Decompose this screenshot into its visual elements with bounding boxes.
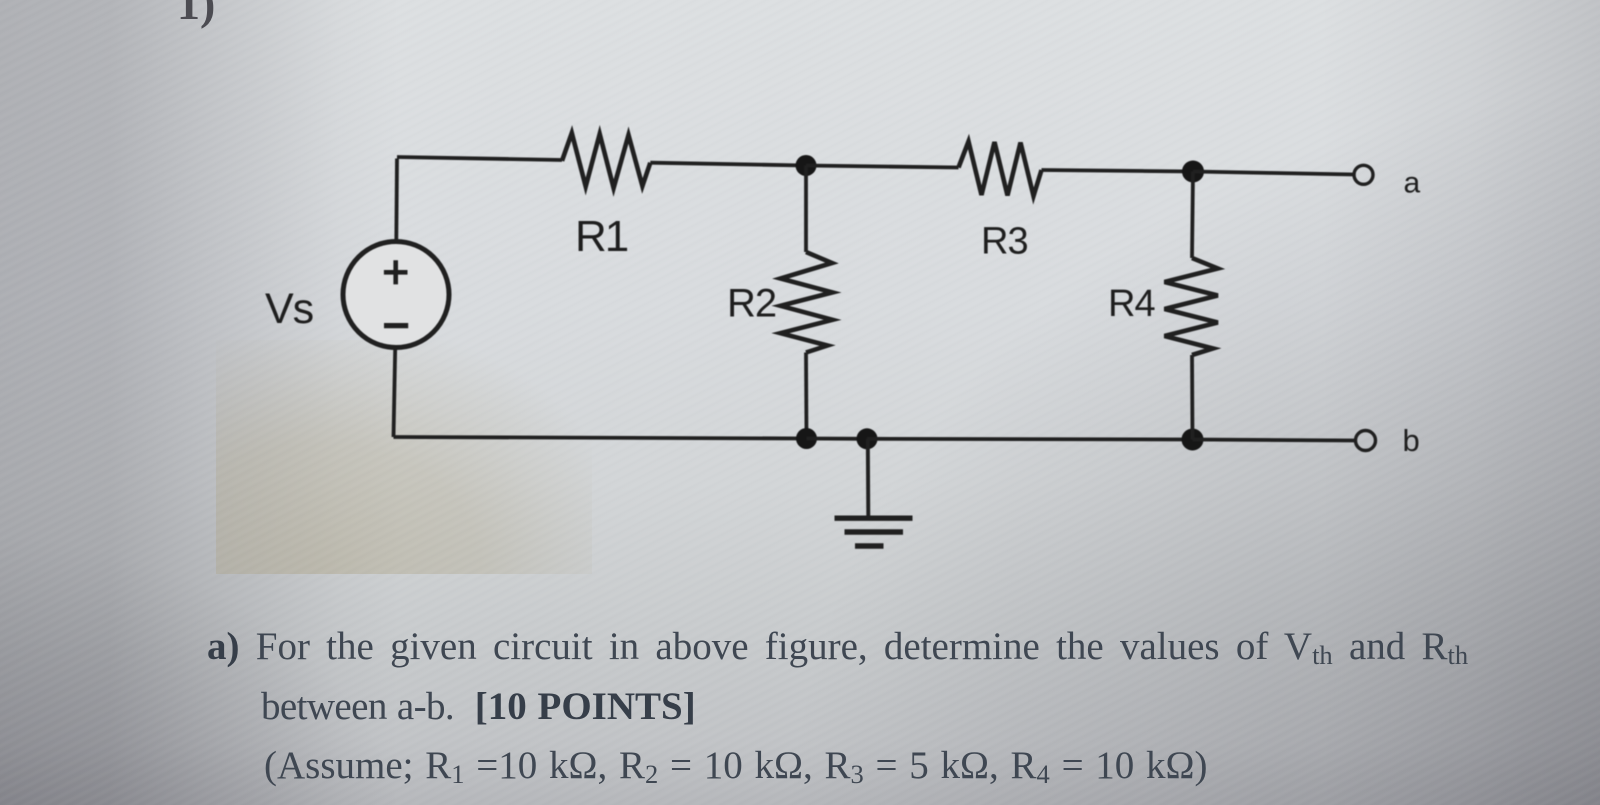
wire: R2 lower segment down to node C bbox=[804, 353, 808, 439]
ground stem bbox=[866, 439, 870, 516]
node A (junction dot, top of R2) bbox=[796, 155, 817, 176]
wire: R2 upper segment from node A bbox=[804, 166, 808, 253]
caption line 3 bbox=[264, 746, 1208, 785]
wire: node C to node D (ground tap) bbox=[807, 437, 868, 441]
heading question number 1) bbox=[177, 0, 215, 30]
terminal b (open circle) bbox=[1356, 431, 1376, 451]
svg-text:R3: R3 bbox=[981, 221, 1028, 263]
svg-text:R1: R1 bbox=[575, 212, 628, 261]
minus sign inside source bbox=[384, 323, 408, 328]
wire: node B to terminal a bbox=[1193, 172, 1354, 175]
node D (junction dot, ground tap) bbox=[857, 428, 878, 449]
node E (junction dot, bottom of R4) bbox=[1182, 429, 1204, 451]
terminal a (open circle) bbox=[1354, 165, 1373, 184]
wire: R3 right end to node B bbox=[1042, 170, 1194, 172]
wire: node D to node E bbox=[867, 437, 1193, 442]
voltage source Vs (circle symbol) bbox=[343, 242, 449, 348]
svg-text:R2: R2 bbox=[727, 282, 776, 326]
wire: node E to terminal b bbox=[1193, 440, 1356, 441]
wire: R1 right end to node A bbox=[650, 163, 806, 166]
svg-text:Vs: Vs bbox=[265, 285, 313, 333]
resistor R3 (horizontal zigzag) bbox=[959, 142, 1042, 197]
svg-text:b: b bbox=[1403, 423, 1420, 458]
ground bar short bbox=[855, 543, 884, 548]
wire: bottom horizontal, corner to node C bbox=[394, 437, 807, 439]
wire: source bottom down to bottom-left corner bbox=[394, 348, 396, 437]
wire: node A to R3 left end bbox=[806, 166, 959, 168]
plus sign inside source bbox=[384, 260, 408, 284]
svg-text:a: a bbox=[1404, 167, 1421, 200]
node C (junction dot, bottom of R2) bbox=[796, 428, 817, 449]
wire: top horizontal from corner to R1 left end bbox=[397, 157, 562, 160]
ground bar long bbox=[835, 516, 913, 521]
caption line 2 bbox=[261, 687, 696, 726]
resistor R2 (vertical zigzag) bbox=[781, 252, 833, 353]
wire: R4 upper segment from node B bbox=[1192, 172, 1193, 259]
svg-text:R4: R4 bbox=[1108, 283, 1155, 325]
caption line 1 bbox=[207, 627, 1468, 666]
wire: left vertical from top-left corner down to source top bbox=[394, 159, 399, 242]
resistor R4 (vertical zigzag) bbox=[1165, 258, 1218, 355]
resistor R1 (horizontal zigzag) bbox=[562, 133, 650, 188]
node B (junction dot, top of R4) bbox=[1182, 161, 1204, 183]
ground bar medium bbox=[845, 529, 904, 534]
wire: R4 lower segment down to node E bbox=[1190, 355, 1194, 440]
